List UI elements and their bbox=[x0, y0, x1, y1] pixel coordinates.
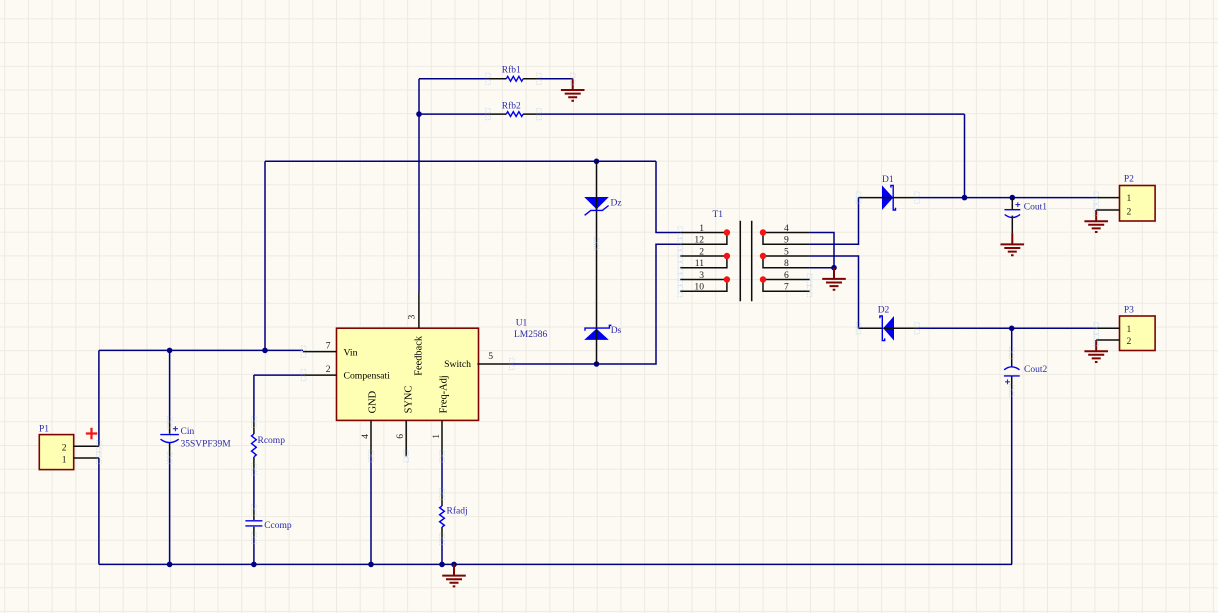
svg-text:P1: P1 bbox=[39, 425, 49, 435]
svg-text:6: 6 bbox=[784, 270, 789, 281]
node Rfb2/output junction bbox=[962, 195, 968, 201]
wire vertical feedback x=419 bbox=[418, 79, 420, 292]
svg-text:SYNC: SYNC bbox=[403, 386, 414, 414]
svg-text:Switch: Switch bbox=[444, 359, 471, 370]
wire Rfb2 vertical down to output rail bbox=[964, 114, 966, 198]
svg-text:1: 1 bbox=[1127, 193, 1132, 204]
polarity dots right bbox=[760, 229, 766, 235]
svg-text:1: 1 bbox=[431, 434, 442, 439]
node ground symbol junction bbox=[451, 562, 457, 568]
svg-text:9: 9 bbox=[784, 235, 789, 246]
svg-text:U1: U1 bbox=[516, 319, 528, 329]
diode Dz (zener) bbox=[584, 161, 621, 364]
node Vin/Cin junction bbox=[167, 348, 173, 354]
svg-text:2: 2 bbox=[1127, 207, 1132, 218]
pin 7 Vin bbox=[303, 340, 358, 358]
resistor Rcomp bbox=[251, 422, 285, 469]
svg-text:P3: P3 bbox=[1124, 306, 1134, 316]
node Dz top junction bbox=[594, 159, 600, 165]
svg-text:7: 7 bbox=[326, 340, 331, 351]
pin 1 Freq-Adj bbox=[431, 375, 450, 456]
connector P2 bbox=[1096, 175, 1155, 222]
wire T1 pin8 to ground junction bbox=[810, 267, 834, 269]
pin 4 GND bbox=[360, 390, 378, 456]
winding 2-11 bbox=[680, 256, 727, 268]
pin 6 SYNC bbox=[395, 386, 414, 457]
wire Rfb2 right long segment bbox=[539, 113, 965, 115]
svg-text:P2: P2 bbox=[1124, 175, 1134, 185]
svg-text:3: 3 bbox=[406, 315, 417, 320]
svg-text:Dz: Dz bbox=[611, 198, 622, 208]
ground at P3 pin2 bbox=[1084, 340, 1108, 362]
node Cout1 junction bbox=[1010, 195, 1016, 201]
wire compensation pin2 horizontal bbox=[254, 374, 303, 376]
wire T1 pin9 up to D1 bbox=[810, 198, 859, 245]
svg-text:10: 10 bbox=[694, 282, 704, 293]
svg-text:T1: T1 bbox=[713, 210, 724, 220]
wire Freq-Adj to Rfadj bbox=[441, 456, 443, 494]
node Rfb2/feedback junction bbox=[416, 111, 422, 117]
resistor Rfadj bbox=[440, 494, 468, 539]
pin 2 Compensati bbox=[303, 364, 390, 382]
pin 5 Switch bbox=[444, 351, 511, 370]
node Ccomp bottom junction bbox=[251, 562, 257, 568]
resistor Rfb1 bbox=[488, 65, 539, 82]
wire U1 GND pin to rail bbox=[370, 456, 372, 564]
pin 3 Feedback bbox=[406, 292, 424, 376]
capacitor Cout1 bbox=[1005, 198, 1048, 234]
wire bottom ground rail bbox=[99, 563, 1012, 565]
wire switch node to T1 pin12 bbox=[512, 244, 681, 364]
wire Rfb1 left segment bbox=[419, 78, 488, 80]
wire Rfb1 right to ground bbox=[539, 78, 573, 80]
svg-text:Rfadj: Rfadj bbox=[447, 506, 468, 517]
wire Cin top bbox=[169, 350, 171, 422]
wire Rfadj to rail bbox=[441, 539, 443, 564]
winding 1-12 bbox=[680, 233, 727, 245]
svg-text:Rcomp: Rcomp bbox=[258, 436, 286, 446]
transformer T1 bbox=[680, 210, 809, 301]
svg-text:Cin: Cin bbox=[181, 427, 195, 437]
wire Cout2 top lead bbox=[1011, 328, 1013, 353]
wire D2 rail to P3 pin1 bbox=[917, 327, 1096, 329]
node Cin bottom junction bbox=[167, 562, 173, 568]
resistor Rfb2 bbox=[488, 100, 539, 116]
wire primary top horizontal y=161 bbox=[265, 160, 656, 162]
op-amp U1 body bbox=[337, 319, 548, 421]
capacitor Cin 35SVPF39M bbox=[160, 422, 231, 458]
wire vertical x=265 to Vin rail bbox=[264, 161, 266, 350]
polarity dots left bbox=[724, 229, 730, 235]
wire T1 pin5 down to D2 bbox=[810, 256, 859, 328]
svg-text:7: 7 bbox=[784, 282, 789, 293]
wire Rfb2 left segment bbox=[419, 113, 488, 115]
svg-text:5: 5 bbox=[784, 246, 789, 257]
svg-text:3: 3 bbox=[699, 270, 704, 281]
node Ds bottom junction bbox=[594, 361, 600, 367]
svg-text:1: 1 bbox=[62, 454, 67, 465]
wire P1 pin2 vertical bbox=[98, 350, 100, 446]
wire T1 pin4 to ground junction bbox=[810, 233, 834, 268]
capacitor Ccomp bbox=[245, 510, 291, 538]
wire Ccomp to bottom rail bbox=[253, 538, 255, 564]
svg-text:Vin: Vin bbox=[344, 348, 358, 359]
svg-text:4: 4 bbox=[784, 223, 789, 234]
ground at Cout1 bbox=[1001, 233, 1025, 255]
plus polarity mark bbox=[86, 428, 97, 439]
svg-text:5: 5 bbox=[488, 351, 493, 362]
wire P1 pin1 down to bottom rail bbox=[98, 458, 100, 564]
svg-text:2: 2 bbox=[1127, 336, 1132, 347]
svg-text:Rfb1: Rfb1 bbox=[502, 65, 521, 76]
capacitor Cout2 bbox=[1004, 353, 1048, 391]
node Vin/primary junction bbox=[262, 348, 268, 354]
svg-text:Cout1: Cout1 bbox=[1024, 203, 1047, 213]
svg-text:D2: D2 bbox=[878, 305, 890, 315]
diode Ds (schottky) bbox=[584, 325, 621, 340]
svg-text:2: 2 bbox=[326, 364, 331, 375]
diode D1 (schottky) bbox=[859, 175, 918, 210]
ground at P2 pin2 bbox=[1084, 210, 1108, 232]
winding 3-10 bbox=[680, 280, 727, 292]
svg-text:8: 8 bbox=[784, 258, 789, 269]
node T1 secondary ground junction bbox=[831, 265, 837, 271]
core lines bbox=[740, 221, 751, 302]
node GND pin junction bbox=[368, 562, 374, 568]
svg-text:GND: GND bbox=[367, 390, 378, 413]
svg-text:11: 11 bbox=[695, 258, 704, 269]
ground at Rfb1 bbox=[561, 79, 585, 101]
connector P3 bbox=[1096, 306, 1155, 351]
svg-text:35SVPF39M: 35SVPF39M bbox=[181, 439, 232, 449]
wire Cout2 bottom to rail bbox=[1011, 390, 1013, 564]
svg-text:1: 1 bbox=[1127, 324, 1132, 335]
svg-text:Ccomp: Ccomp bbox=[264, 521, 292, 531]
svg-text:Feedback: Feedback bbox=[413, 335, 424, 376]
wire D1 cathode rail to P2 pin1 bbox=[917, 197, 1096, 199]
svg-text:Compensati: Compensati bbox=[344, 370, 391, 381]
wire Cin bottom bbox=[169, 458, 171, 564]
ground at bottom rail bbox=[442, 564, 466, 586]
wire Rcomp to Ccomp bbox=[253, 469, 255, 510]
svg-text:D1: D1 bbox=[882, 175, 894, 185]
wire Vin rail y=350.4 bbox=[99, 349, 303, 351]
svg-text:4: 4 bbox=[360, 434, 371, 439]
wire x=656 down to T1 pin1 bbox=[656, 161, 680, 232]
winding 4-9 bbox=[763, 233, 810, 245]
svg-text:Ds: Ds bbox=[611, 326, 622, 336]
winding 6-7 bbox=[763, 280, 810, 292]
diode D2 (schottky) bbox=[859, 305, 918, 340]
svg-text:2: 2 bbox=[699, 246, 704, 257]
svg-text:1: 1 bbox=[699, 223, 704, 234]
ground at T1 secondary bbox=[822, 268, 846, 290]
svg-text:Freq-Adj: Freq-Adj bbox=[439, 375, 450, 413]
wire compensation vertical to Rcomp bbox=[253, 375, 255, 422]
svg-text:Cout2: Cout2 bbox=[1024, 365, 1047, 375]
svg-text:2: 2 bbox=[62, 443, 67, 454]
svg-text:Rfb2: Rfb2 bbox=[502, 100, 521, 111]
node Rfadj bottom junction bbox=[439, 562, 445, 568]
connector P1 bbox=[39, 425, 99, 470]
svg-text:LM2586: LM2586 bbox=[514, 330, 548, 340]
winding 5-8 bbox=[763, 256, 810, 268]
node Cout2 junction bbox=[1009, 326, 1015, 332]
svg-text:6: 6 bbox=[395, 434, 406, 439]
svg-text:12: 12 bbox=[694, 235, 704, 246]
